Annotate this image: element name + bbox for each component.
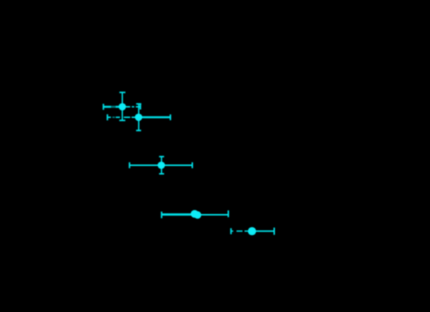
data point P1 x error bar left segment [103,106,119,108]
data point P3 marker [158,162,165,169]
data point P2 marker [135,114,142,121]
data point P2 y error bar bottom cap [136,130,141,132]
data point P5 marker [248,227,256,235]
data point P3 y error bar top cap [159,156,164,158]
data point P3 y error bar line [161,157,163,174]
data point P3 y error bar bottom cap [159,173,164,175]
data point P5 x error bar left segment (dashed) [232,230,249,232]
data point P2 y error bar line [138,104,140,131]
data point P4 x error bar left segment [162,213,192,215]
data point P2 y error bar top cap [136,103,141,105]
data point P1 y error bar bottom cap [119,119,125,121]
data point P2 x error bar right segment [142,116,170,118]
data point P3 x error bar left cap [129,162,131,168]
data point P1 x error bar right cap [139,104,141,110]
data point P3 x error bar right cap [191,162,193,168]
data point P2 x error bar left segment (dashed) [107,116,135,118]
data point P1 y error bar top cap [119,91,125,93]
data point P4 x error bar right cap [227,210,229,217]
data point P2 x error bar right cap [169,114,171,120]
data point P2 x error bar left cap [106,114,108,120]
data point P1 x error bar left cap [102,104,104,110]
data point P5 x error bar right segment [256,230,274,232]
data point P1 y error bar line [121,92,123,120]
data point P1 marker [119,103,126,110]
data point P1 x error bar right segment (dashed) [126,106,141,108]
data point P3 x error bar line [130,164,193,166]
data point P5 x error bar right cap [273,228,275,235]
data point P4 x error bar left cap [161,212,163,219]
data point P4 x error bar right segment [201,214,229,216]
data point P4 marker (overlapping pair) [191,210,202,219]
data point P5 x error bar left cap [230,228,232,234]
